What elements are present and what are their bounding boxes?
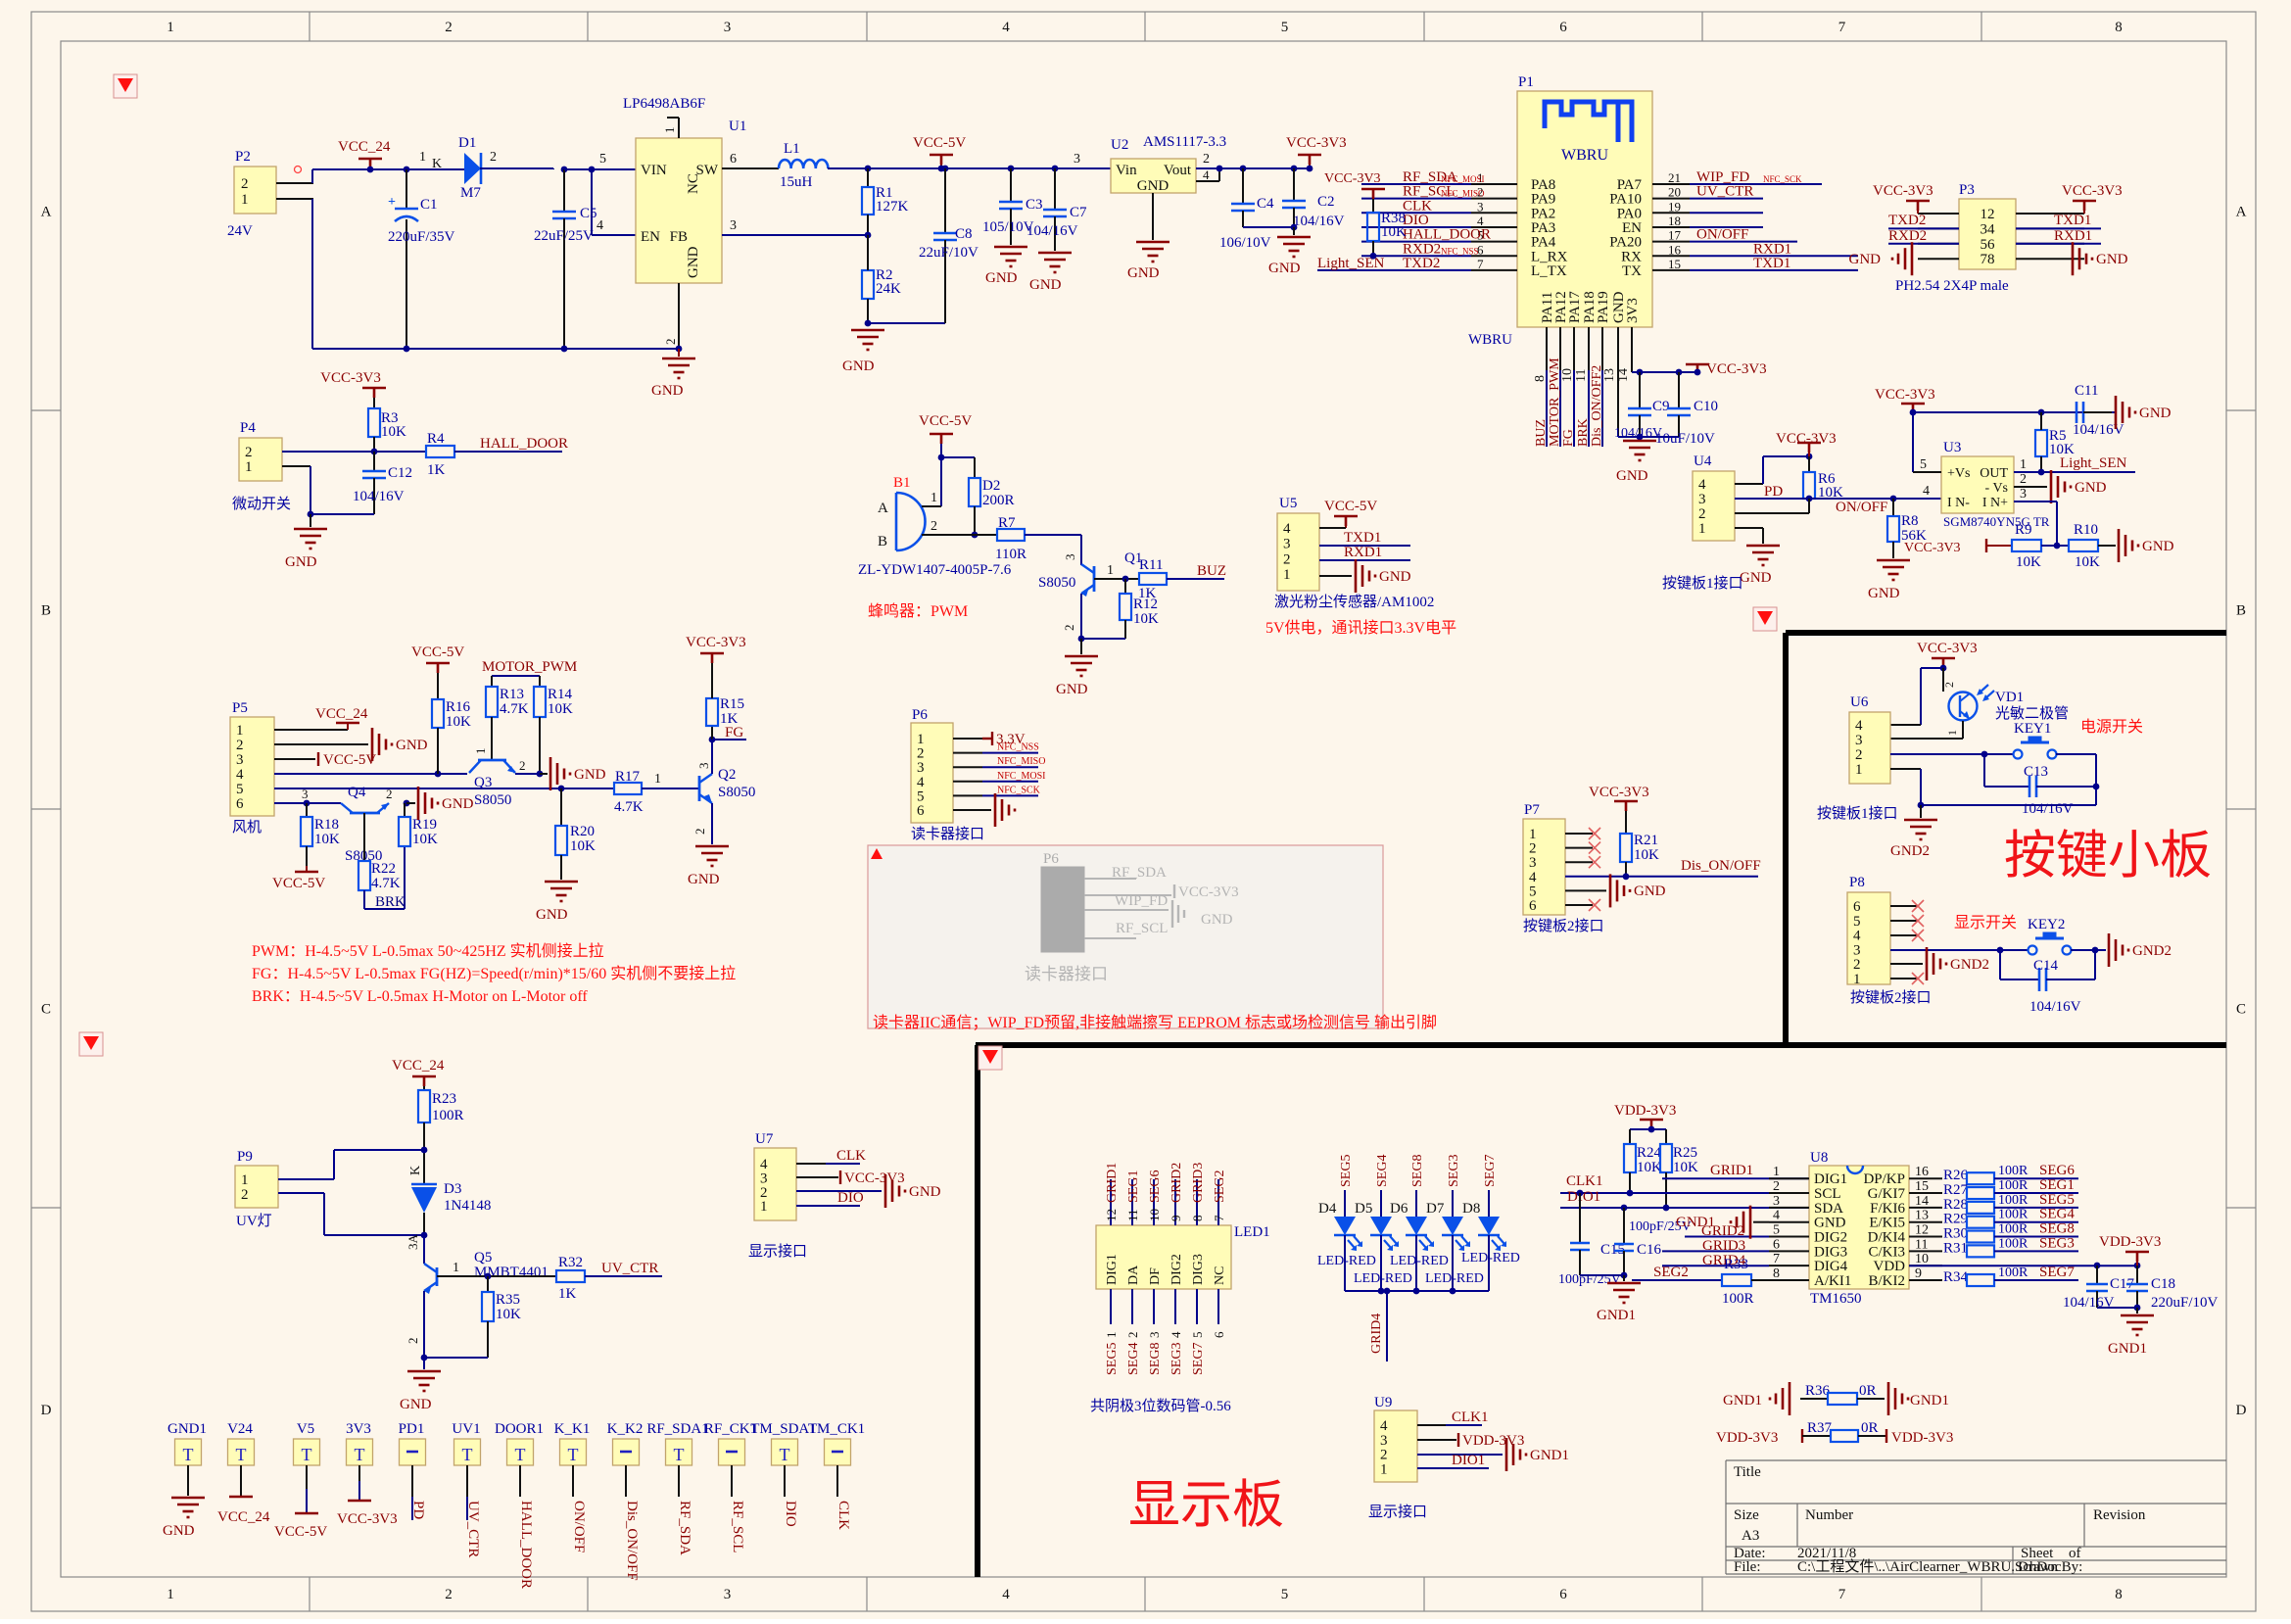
svg-text:SEG1: SEG1: [1126, 1170, 1141, 1203]
svg-text:R22: R22: [371, 861, 396, 877]
svg-text:10K: 10K: [446, 714, 471, 730]
svg-text:C5: C5: [580, 206, 597, 221]
svg-text:4: 4: [1002, 20, 1010, 35]
svg-text:VCC-3V3: VCC-3V3: [1776, 431, 1837, 447]
svg-text:1: 1: [245, 459, 253, 475]
resistor R32: [556, 1270, 585, 1282]
svg-text:1: 1: [167, 20, 174, 35]
P1 pin 4: [1471, 226, 1517, 228]
svg-text:1: 1: [1380, 1461, 1388, 1477]
resistor R3: [368, 408, 380, 437]
base wire: [437, 1275, 556, 1277]
svg-text:D/KI4: D/KI4: [1868, 1230, 1906, 1246]
svg-text:VCC_24: VCC_24: [315, 706, 368, 722]
svg-text:DIO1: DIO1: [1567, 1189, 1600, 1205]
svg-text:P1: P1: [1518, 74, 1534, 90]
svg-text:2: 2: [1855, 747, 1863, 763]
svg-text:蜂鸣器：PWM: 蜂鸣器：PWM: [868, 602, 968, 620]
svg-text:5: 5: [1190, 1332, 1205, 1339]
svg-text:BRK: BRK: [1576, 418, 1591, 447]
svg-text:Vin: Vin: [1116, 163, 1137, 178]
test point PD1 wire: [411, 1465, 413, 1497]
P8 nc pin: [1890, 920, 1918, 922]
ground: [1038, 253, 1072, 272]
svg-text:WBRU: WBRU: [1468, 332, 1512, 348]
net NFC_MISO: [953, 766, 982, 768]
svg-text:VCC-3V3: VCC-3V3: [1873, 183, 1933, 199]
svg-text:VCC-3V3: VCC-3V3: [1875, 387, 1935, 403]
svg-text:+Vs: +Vs: [1947, 466, 1970, 481]
svg-text:GND: GND: [2142, 539, 2174, 554]
svg-text:6: 6: [1853, 899, 1861, 915]
P1 pin 6: [1471, 255, 1517, 257]
svg-text:R27: R27: [1943, 1182, 1969, 1198]
svg-text:10: 10: [1915, 1252, 1929, 1266]
ghost region card reader: [868, 845, 1383, 1028]
svg-text:1: 1: [241, 192, 249, 208]
svg-text:PA7: PA7: [1617, 177, 1643, 193]
svg-text:M7: M7: [460, 185, 481, 201]
svg-text:DP/KP: DP/KP: [1863, 1171, 1905, 1187]
svg-text:U1: U1: [729, 119, 746, 134]
svg-text:LP6498AB6F: LP6498AB6F: [623, 96, 705, 112]
svg-text:DIO: DIO: [783, 1501, 798, 1527]
net DIO1: [1417, 1467, 1489, 1469]
svg-text:3: 3: [1063, 554, 1077, 561]
power VDD-3V3: [1417, 1439, 1456, 1441]
svg-text:1: 1: [1283, 567, 1291, 583]
svg-text:D: D: [41, 1403, 52, 1418]
svg-text:C18: C18: [2151, 1276, 2175, 1292]
resistor R13: [491, 676, 493, 687]
ground right: [2073, 242, 2092, 275]
svg-text:RF_SDA1: RF_SDA1: [646, 1421, 708, 1437]
svg-text:1: 1: [662, 127, 677, 134]
P7 nc pin: [1565, 847, 1593, 849]
P1 pin 15: [1652, 269, 1690, 271]
ghost connector P6: [1041, 867, 1084, 952]
pin2 ground: [274, 743, 368, 745]
svg-text:DIG2: DIG2: [1814, 1230, 1847, 1246]
svg-text:GRID4: GRID4: [1369, 1314, 1384, 1354]
svg-text:UV灯: UV灯: [236, 1213, 272, 1229]
svg-text:104/16V: 104/16V: [1026, 223, 1078, 239]
svg-text:1: 1: [1855, 762, 1863, 778]
svg-text:2: 2: [1942, 682, 1956, 688]
svg-text:SEG7: SEG7: [2039, 1265, 2075, 1280]
connector U6: [1849, 712, 1890, 784]
svg-text:CLK1: CLK1: [1566, 1173, 1603, 1189]
svg-text:GND: GND: [1201, 912, 1233, 928]
svg-text:激光粉尘传感器/AM1002: 激光粉尘传感器/AM1002: [1274, 594, 1434, 610]
svg-text:GND: GND: [1379, 569, 1411, 585]
svg-text:WIP_FD: WIP_FD: [1115, 893, 1168, 909]
svg-text:F/KI6: F/KI6: [1870, 1201, 1905, 1217]
svg-text:ON/OFF: ON/OFF: [1696, 227, 1748, 243]
svg-text:R12: R12: [1133, 597, 1158, 612]
resistor R18: [306, 803, 308, 817]
svg-text:R32: R32: [558, 1255, 583, 1270]
inductor L1: [779, 160, 828, 168]
svg-text:8: 8: [2115, 20, 2123, 35]
svg-text:R7: R7: [998, 515, 1016, 531]
buzzer B1: [895, 493, 898, 550]
U8 pin 3: [1769, 1207, 1809, 1209]
svg-text:RXD1: RXD1: [2054, 228, 2092, 244]
ground under U2: [1152, 193, 1154, 240]
svg-text:D1: D1: [458, 135, 476, 151]
svg-text:11: 11: [1574, 369, 1589, 382]
svg-text:D8: D8: [1462, 1201, 1480, 1217]
svg-text:200R: 200R: [982, 493, 1015, 508]
U8 pin 8: [1769, 1279, 1809, 1281]
svg-text:GND: GND: [536, 907, 568, 923]
svg-text:GND: GND: [1127, 265, 1160, 281]
P1 pin 1: [1471, 183, 1517, 185]
svg-text:RF_CK1: RF_CK1: [704, 1421, 757, 1437]
ground: [407, 1371, 441, 1391]
ground GND: [678, 349, 680, 357]
svg-text:CLK: CLK: [836, 1148, 866, 1164]
svg-text:100R: 100R: [1722, 1291, 1754, 1307]
P1 pin 3: [1471, 212, 1517, 214]
svg-text:5: 5: [1281, 1587, 1289, 1602]
svg-text:2: 2: [1698, 506, 1706, 522]
svg-text:FB: FB: [670, 229, 688, 245]
svg-text:ZL-YDW1407-4005P-7.6: ZL-YDW1407-4005P-7.6: [858, 562, 1012, 578]
svg-text:8: 8: [1190, 1216, 1205, 1222]
svg-text:NFC_MISO: NFC_MISO: [997, 756, 1045, 767]
svg-text:L_TX: L_TX: [1531, 263, 1567, 279]
svg-text:P2: P2: [235, 149, 251, 165]
svg-text:DIO: DIO: [837, 1190, 864, 1206]
ground: [1293, 227, 1295, 235]
svg-text:SEG8: SEG8: [2039, 1221, 2075, 1237]
pin6 ground: [953, 809, 991, 811]
resistor R20: [560, 788, 562, 826]
P1 pin 20: [1652, 198, 1690, 200]
svg-text:1: 1: [931, 491, 937, 505]
svg-text:4: 4: [1698, 477, 1706, 493]
svg-text:按键板2接口: 按键板2接口: [1523, 917, 1604, 934]
pin2 ground: [1890, 963, 1923, 965]
svg-text:显示板: 显示板: [1128, 1477, 1284, 1534]
svg-text:I N+: I N+: [1982, 496, 2008, 510]
svg-text:P6: P6: [912, 707, 928, 723]
P7 nc pin: [1565, 833, 1593, 835]
svg-text:VCC-3V3: VCC-3V3: [844, 1170, 905, 1186]
svg-text:SEG4: SEG4: [2039, 1207, 2075, 1222]
svg-text:PA19: PA19: [1596, 291, 1611, 323]
svg-text:PA4: PA4: [1531, 235, 1556, 251]
svg-text:15: 15: [1668, 257, 1681, 271]
svg-text:GRID1: GRID1: [1105, 1163, 1120, 1203]
svg-text:12: 12: [1981, 207, 1995, 222]
svg-text:RXD2: RXD2: [1403, 241, 1441, 257]
capacitor C16: [1621, 1205, 1628, 1212]
regulator U1 LP6498AB6F: [636, 138, 722, 283]
svg-text:NFC_SCK: NFC_SCK: [997, 785, 1041, 795]
svg-text:电源开关: 电源开关: [2080, 718, 2143, 736]
svg-text:I N-: I N-: [1947, 496, 1970, 510]
svg-text:2: 2: [1773, 1179, 1780, 1194]
svg-text:2: 2: [519, 758, 526, 773]
svg-text:D7: D7: [1426, 1201, 1445, 1217]
net FG: [712, 739, 746, 740]
power VCC-3V3: [796, 1176, 838, 1178]
net WIP_FD: [1690, 183, 1822, 185]
capacitor C2: [1291, 166, 1298, 172]
svg-text:2: 2: [445, 20, 453, 35]
resistor R15: [711, 740, 713, 774]
svg-text:R34: R34: [1943, 1269, 1969, 1285]
svg-text:VCC_24: VCC_24: [217, 1509, 270, 1525]
svg-text:R21: R21: [1634, 833, 1658, 848]
svg-text:12: 12: [1915, 1223, 1929, 1238]
net UV_CTR: [585, 1275, 662, 1277]
net RF_SCL: [1361, 198, 1471, 200]
svg-text:DOOR1: DOOR1: [495, 1421, 544, 1437]
svg-text:100R: 100R: [1998, 1222, 2028, 1237]
connector P5: [230, 717, 274, 816]
LED1 pin 4: [1174, 1289, 1176, 1324]
capacitor C9: [1637, 369, 1644, 376]
svg-text:RF_SDA: RF_SDA: [677, 1501, 692, 1555]
test point V5 power: [306, 1465, 308, 1489]
wire: [276, 198, 313, 200]
svg-text:1: 1: [167, 1587, 174, 1602]
svg-text:PA10: PA10: [1609, 192, 1642, 208]
svg-text:DIG1: DIG1: [1105, 1254, 1120, 1285]
svg-text:File:: File:: [1734, 1559, 1761, 1575]
svg-text:3A: 3A: [406, 1234, 420, 1251]
svg-text:BRK: BRK: [375, 894, 406, 910]
svg-text:Q3: Q3: [474, 775, 492, 790]
U8 pin 13: [1909, 1221, 1942, 1223]
svg-text:WIP_FD: WIP_FD: [1696, 169, 1749, 185]
svg-text:T: T: [515, 1445, 526, 1464]
svg-text:VCC_24: VCC_24: [338, 139, 391, 155]
svg-text:4: 4: [1923, 484, 1930, 499]
svg-text:DIG2: DIG2: [1169, 1254, 1184, 1285]
emitter ground: [711, 803, 713, 844]
svg-text:R8: R8: [1901, 513, 1919, 529]
svg-text:0R: 0R: [1859, 1383, 1877, 1399]
svg-text:D5: D5: [1355, 1201, 1372, 1217]
svg-text:D2: D2: [982, 478, 1000, 494]
svg-text:TM_CK1: TM_CK1: [808, 1421, 865, 1437]
svg-text:S8050: S8050: [718, 785, 755, 800]
transistor Q3 S8050: [478, 759, 506, 762]
svg-text:B/KI2: B/KI2: [1869, 1273, 1906, 1289]
svg-text:10K: 10K: [2016, 554, 2041, 570]
display digit LED1: [1096, 1225, 1231, 1289]
svg-text:DF: DF: [1148, 1267, 1163, 1285]
svg-text:15uH: 15uH: [780, 174, 813, 190]
svg-text:- Vs: - Vs: [1985, 481, 2008, 496]
svg-text:PD: PD: [410, 1501, 426, 1519]
svg-text:2: 2: [490, 150, 497, 165]
svg-text:LED1: LED1: [1234, 1224, 1270, 1240]
svg-text:2: 2: [2020, 472, 2027, 487]
svg-text:R18: R18: [314, 817, 339, 833]
svg-text:SEG5: SEG5: [2039, 1192, 2075, 1208]
svg-text:DIG4: DIG4: [1814, 1259, 1848, 1274]
svg-text:GND: GND: [285, 554, 317, 570]
svg-text:C9: C9: [1652, 399, 1670, 414]
svg-text:TXD1: TXD1: [1344, 530, 1381, 546]
svg-text:D6: D6: [1390, 1201, 1408, 1217]
svg-text:C10: C10: [1694, 399, 1718, 414]
svg-text:T: T: [568, 1445, 579, 1464]
ground GND2: [1920, 805, 1922, 818]
svg-text:6: 6: [1559, 20, 1567, 35]
svg-text:4: 4: [1529, 870, 1537, 885]
svg-text:Revision: Revision: [2093, 1507, 2146, 1523]
svg-text:22uF/10V: 22uF/10V: [919, 245, 978, 261]
svg-text:MOTOR_PWM: MOTOR_PWM: [482, 659, 577, 675]
svg-text:4: 4: [917, 775, 925, 790]
P8 nc pin: [1890, 978, 1918, 979]
net HALL_DOOR: [454, 451, 562, 453]
wire pin2: [282, 451, 426, 453]
capacitor C5: [561, 167, 568, 173]
svg-text:SDA: SDA: [1814, 1201, 1843, 1217]
pin2 ground: [1417, 1454, 1503, 1456]
svg-text:7: 7: [1773, 1252, 1780, 1266]
svg-text:EN: EN: [641, 229, 660, 245]
svg-text:C16: C16: [1637, 1242, 1662, 1258]
U8 pin 14: [1909, 1207, 1942, 1209]
svg-text:R30: R30: [1943, 1226, 1968, 1242]
svg-text:3: 3: [1773, 1194, 1780, 1209]
svg-text:Light_SEN: Light_SEN: [2060, 455, 2127, 471]
svg-text:PA0: PA0: [1617, 206, 1642, 221]
svg-text:R15: R15: [720, 696, 744, 712]
svg-text:RF_SCL: RF_SCL: [1116, 921, 1168, 936]
svg-text:10K: 10K: [548, 701, 573, 717]
svg-text:NFC_NSS: NFC_NSS: [997, 742, 1039, 753]
svg-text:SEG3: SEG3: [1169, 1343, 1184, 1375]
svg-text:3: 3: [1283, 537, 1291, 552]
test point TM_SDA1 wire: [784, 1465, 786, 1497]
svg-text:1N4148: 1N4148: [444, 1198, 491, 1214]
transistor Q4 S8050: [350, 812, 380, 815]
net nc: [1690, 212, 1763, 214]
module P1 WBRU: [1517, 91, 1652, 327]
svg-text:11: 11: [1915, 1237, 1928, 1252]
svg-text:220uF/35V: 220uF/35V: [388, 229, 455, 245]
svg-text:5: 5: [1773, 1223, 1780, 1238]
svg-text:VCC-5V: VCC-5V: [411, 645, 464, 660]
resistor R12: [1124, 579, 1126, 594]
LED1 pin 3: [1153, 1289, 1155, 1324]
svg-text:3: 3: [1074, 152, 1080, 167]
net RF_SDA: [1361, 183, 1471, 185]
svg-text:3: 3: [1853, 942, 1861, 958]
ground: [2119, 529, 2138, 562]
wire: [276, 182, 313, 184]
svg-text:GND: GND: [396, 738, 428, 753]
svg-text:CLK: CLK: [1403, 198, 1432, 214]
LED1 pin 5: [1196, 1289, 1198, 1324]
net UV_CTR: [1690, 198, 1763, 200]
svg-text:100R: 100R: [1998, 1266, 2028, 1280]
svg-text:共阴极3位数码管-0.56: 共阴极3位数码管-0.56: [1090, 1398, 1231, 1414]
svg-text:NFC_NSS: NFC_NSS: [1441, 246, 1479, 256]
svg-text:104/16V: 104/16V: [2029, 999, 2081, 1015]
ground GND1: [1580, 1274, 1624, 1276]
net CLK1: [1417, 1424, 1446, 1426]
svg-text:2: 2: [406, 1338, 420, 1345]
pin 1 top: [678, 118, 680, 138]
svg-text:U9: U9: [1374, 1395, 1392, 1410]
svg-text:VCC-3V3: VCC-3V3: [1286, 135, 1347, 151]
resistor R22: [363, 813, 365, 861]
svg-text:PA3: PA3: [1531, 220, 1555, 236]
svg-text:2: 2: [917, 746, 925, 762]
svg-text:PH2.54 2X4P male: PH2.54 2X4P male: [1895, 278, 2009, 294]
svg-text:WBRU: WBRU: [1561, 147, 1608, 164]
net TXD1: [1319, 545, 1410, 547]
svg-text:UV_CTR: UV_CTR: [465, 1501, 481, 1557]
svg-text:VCC-3V3: VCC-3V3: [1178, 884, 1239, 900]
wire 5V rail: [828, 167, 1111, 169]
svg-text:R23: R23: [432, 1091, 456, 1107]
connector P9: [235, 1166, 278, 1208]
svg-text:18: 18: [1668, 214, 1681, 228]
svg-text:VCC-3V3: VCC-3V3: [2062, 183, 2123, 199]
svg-text:Q4: Q4: [348, 785, 366, 800]
pin2 wire: [922, 534, 997, 536]
svg-text:K: K: [432, 157, 442, 171]
svg-text:AMS1117-3.3: AMS1117-3.3: [1143, 134, 1226, 150]
U8 pin 9: [1909, 1279, 1942, 1281]
svg-text:T: T: [236, 1445, 247, 1464]
svg-text:8: 8: [1533, 375, 1548, 382]
svg-text:24K: 24K: [876, 281, 901, 297]
svg-text:VCC-5V: VCC-5V: [919, 413, 972, 429]
svg-text:7: 7: [1838, 20, 1846, 35]
LED bottom rail: [1345, 1290, 1489, 1292]
svg-text:0R: 0R: [1861, 1420, 1879, 1436]
svg-text:R28: R28: [1943, 1197, 1968, 1213]
svg-text:GND1: GND1: [1530, 1448, 1569, 1463]
connector P7: [1523, 819, 1565, 915]
wire pin1: [282, 465, 310, 467]
wire VD1 bottom: [1962, 721, 1964, 739]
svg-text:16: 16: [1668, 242, 1682, 257]
net CLK: [796, 1163, 826, 1165]
svg-text:10K: 10K: [314, 832, 340, 847]
ground: [406, 802, 415, 804]
svg-text:4: 4: [1002, 1587, 1010, 1602]
svg-text:6: 6: [917, 803, 925, 819]
svg-text:VDD: VDD: [1874, 1259, 1906, 1274]
U8 pin 5: [1769, 1236, 1809, 1238]
wire: [2056, 753, 2096, 755]
svg-text:RF_SDA: RF_SDA: [1112, 865, 1167, 881]
svg-text:GND: GND: [1616, 468, 1648, 484]
P3 row wires: [1918, 227, 1959, 229]
svg-text:1: 1: [473, 748, 488, 755]
svg-text:VCC-5V: VCC-5V: [274, 1524, 327, 1540]
P1 pin 21: [1652, 183, 1690, 185]
U8 pin 1: [1769, 1177, 1809, 1179]
svg-text:R19: R19: [412, 817, 437, 833]
power VCC-5V below: [295, 871, 318, 873]
svg-text:UV1: UV1: [452, 1421, 480, 1437]
